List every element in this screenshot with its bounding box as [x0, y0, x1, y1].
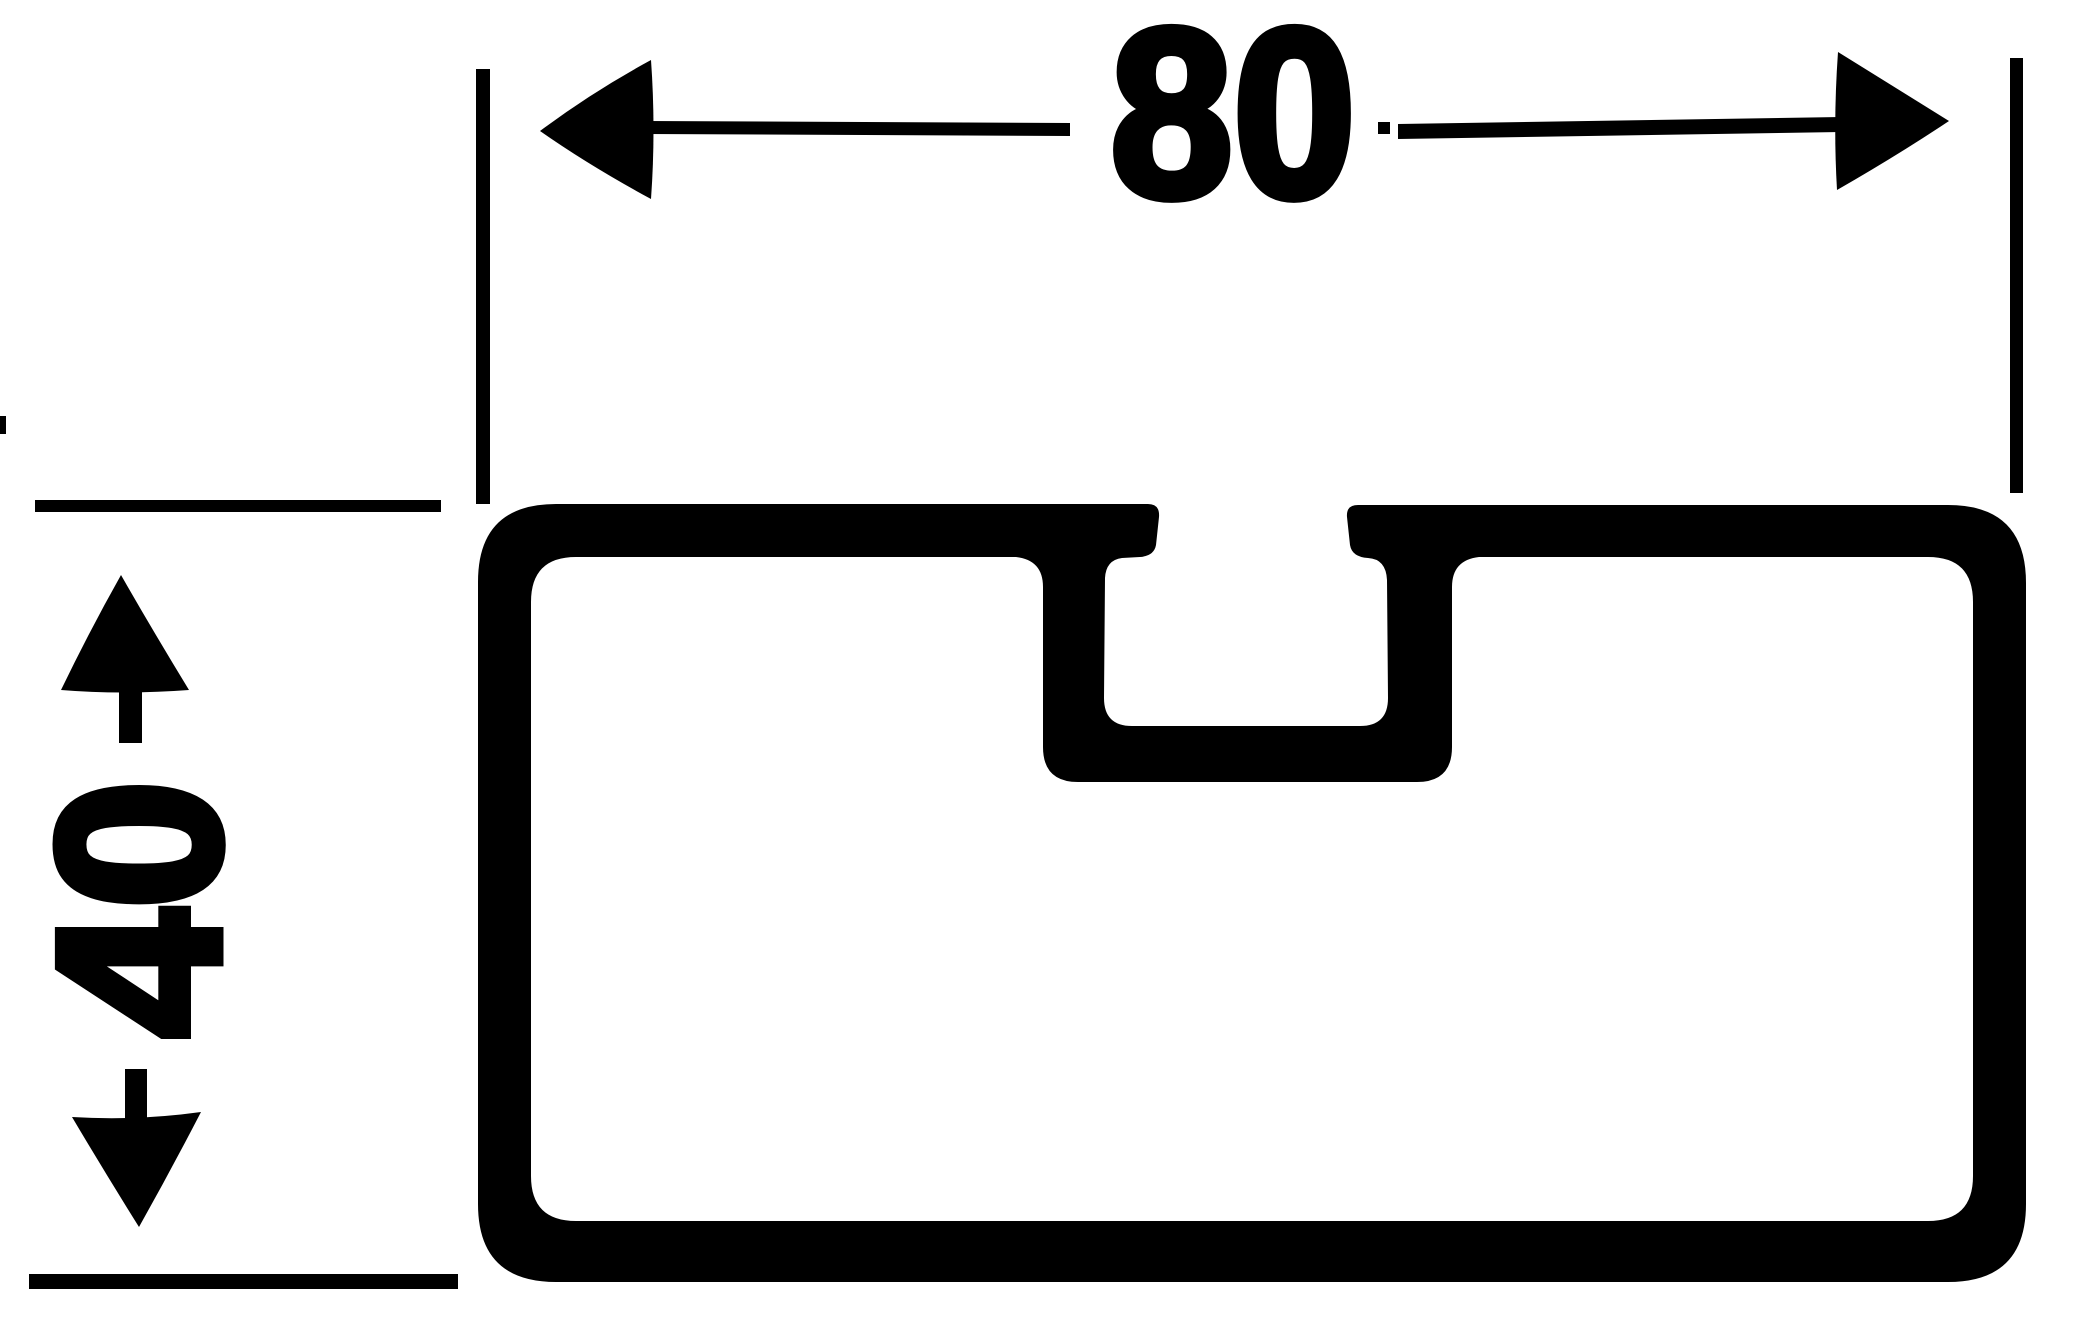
dimension line 80: right shaft: [1398, 117, 1841, 139]
dimension line 40: down arrowhead: [72, 1112, 201, 1227]
extension line bottom (40 dim): [29, 1274, 458, 1289]
dimension line 80: left arrowhead: [540, 60, 654, 199]
stray scan tick left margin: [0, 416, 6, 434]
extension line right (80 dim): [2010, 58, 2023, 493]
svg-text:40: 40: [10, 780, 269, 1038]
dimension line 80: right arrowhead: [1835, 52, 1949, 190]
extension line top (40 dim): [35, 500, 441, 512]
dimension line 80: left shaft: [645, 121, 1070, 136]
dimension line 40: up stem: [119, 686, 142, 743]
dimension line 40: up arrowhead: [61, 575, 189, 693]
extension line left (80 dim): [476, 69, 490, 504]
svg-text:80: 80: [1110, 0, 1356, 247]
dimension line 40: down stem: [125, 1069, 147, 1119]
profile cross-section outline 80x40 with T-slot: [478, 504, 2026, 1282]
dimension line 80: right shaft dot: [1378, 122, 1390, 134]
